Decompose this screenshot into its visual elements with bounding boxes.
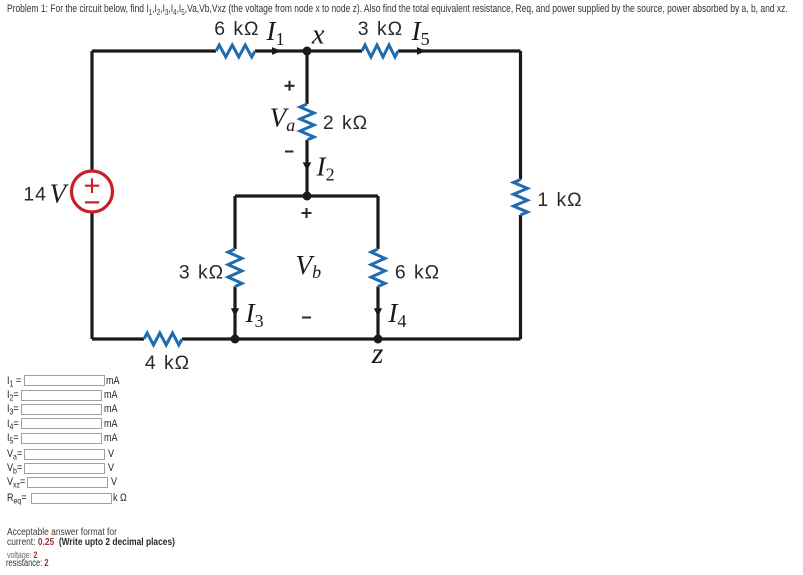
svg-text:2 kΩ: 2 kΩ [323,112,368,134]
svg-text:V: V [50,178,70,208]
svg-text:3 kΩ: 3 kΩ [358,18,403,40]
svg-text:Va: Va [270,102,296,134]
svg-text:3 kΩ: 3 kΩ [179,262,224,284]
svg-text:x: x [311,19,325,50]
svg-text:1 kΩ: 1 kΩ [537,189,582,211]
svg-text:I1: I1 [266,16,285,49]
svg-text:6 kΩ: 6 kΩ [395,262,440,284]
svg-text:14: 14 [23,183,46,205]
svg-text:6 kΩ: 6 kΩ [214,18,259,40]
svg-text:Vb: Vb [296,250,322,282]
svg-text:I2: I2 [316,151,335,184]
svg-text:4 kΩ: 4 kΩ [145,352,190,374]
svg-text:I4: I4 [387,298,406,331]
svg-text:I3: I3 [245,298,264,331]
svg-text:I5: I5 [411,16,430,49]
svg-text:z: z [371,337,384,370]
